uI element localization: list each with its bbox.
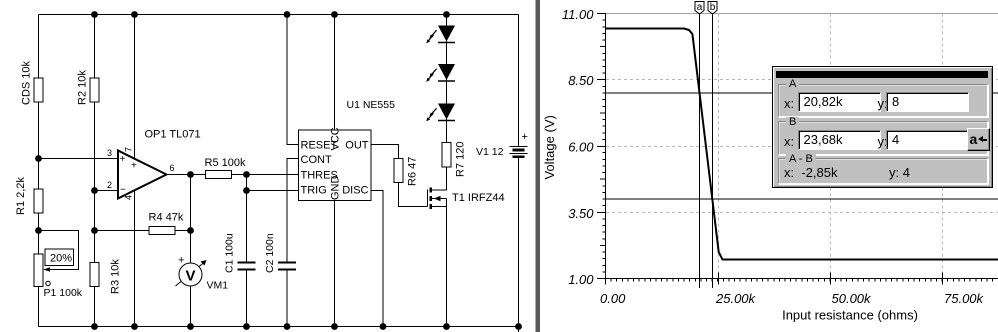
- wire R5 to THRES: [232, 174, 299, 176]
- LED D1: [426, 26, 455, 44]
- svg-text:GND: GND: [330, 176, 342, 201]
- svg-text:CDS 10k: CDS 10k: [21, 60, 33, 105]
- svg-text:2: 2: [107, 180, 112, 190]
- wire DISC drop: [371, 191, 383, 327]
- svg-text:T1 IRFZ44: T1 IRFZ44: [452, 192, 505, 204]
- resistor R1: [34, 189, 43, 213]
- resistor CDS: [34, 78, 43, 102]
- voltmeter VM1 needle: [176, 263, 205, 287]
- svg-text:C2 100n: C2 100n: [264, 233, 276, 273]
- wire R2 column segments: [94, 15, 96, 79]
- wire C2 down: [286, 270, 288, 327]
- battery V1: [510, 147, 528, 157]
- x axis: [606, 278, 998, 280]
- svg-text:V1 12: V1 12: [476, 146, 504, 158]
- svg-text:R4 47k: R4 47k: [149, 212, 184, 224]
- svg-text:R2 10k: R2 10k: [77, 70, 89, 105]
- svg-text:+: +: [178, 255, 184, 267]
- group A: [778, 84, 988, 117]
- transistor T1 body arrow: [434, 196, 441, 202]
- group B: [778, 121, 988, 155]
- svg-text:+: +: [131, 161, 137, 172]
- resistor R7: [442, 143, 451, 168]
- svg-text:6: 6: [170, 163, 175, 173]
- svg-text:75.00k: 75.00k: [944, 291, 985, 306]
- svg-text:V: V: [185, 268, 195, 285]
- wire LED column: [446, 15, 448, 143]
- cursor line a: [699, 11, 701, 289]
- svg-text:Voltage (V): Voltage (V): [542, 115, 557, 179]
- svg-text:CONT: CONT: [301, 154, 332, 166]
- svg-text:4: 4: [124, 195, 134, 200]
- curve voltage vs resistance: [606, 29, 998, 260]
- cursor A horizontal line y=8: [606, 92, 998, 94]
- chart top frame line: [606, 13, 998, 15]
- IC U1 NE555 box: [299, 130, 372, 201]
- wire source down: [446, 207, 448, 327]
- svg-text:+: +: [120, 154, 126, 165]
- wire R4 left: [95, 230, 150, 232]
- cursor handle a: [695, 2, 704, 15]
- gridline horizontal 8.50: [606, 79, 998, 81]
- svg-text:−: −: [120, 185, 126, 196]
- resistor R5: [206, 171, 232, 179]
- potentiometer P1 wiper arrow: [44, 267, 51, 272]
- field B y: [886, 130, 969, 150]
- resistor R3: [90, 263, 99, 287]
- op-amp OP1 triangle: [118, 151, 167, 199]
- gridline vertical 75k: [942, 14, 944, 279]
- wire V1 column: [518, 15, 520, 147]
- panel title bar: [776, 71, 988, 78]
- LED D2: [426, 64, 455, 82]
- wire left column segments: [38, 15, 40, 79]
- svg-text:VCC: VCC: [330, 127, 342, 150]
- wire P1 wiper leader: [39, 231, 79, 270]
- svg-text:VM1: VM1: [207, 280, 229, 292]
- svg-text:OP1 TL071: OP1 TL071: [145, 129, 201, 141]
- potentiometer P1 body: [34, 254, 43, 287]
- svg-text:R6 47: R6 47: [407, 157, 419, 186]
- wire op-amp V- supply: [134, 191, 136, 327]
- wire op-amp pin3: [39, 158, 119, 160]
- svg-text:3: 3: [107, 148, 112, 158]
- svg-text:U1 NE555: U1 NE555: [347, 99, 396, 111]
- svg-text:DISC: DISC: [342, 185, 368, 197]
- cursor measurement panel: [772, 66, 993, 188]
- wire bottom rail: [39, 326, 519, 328]
- y axis ticks: [597, 14, 606, 279]
- wire C1 column: [246, 175, 248, 263]
- wire output node to R5: [167, 174, 206, 176]
- svg-text:6.00: 6.00: [568, 140, 594, 155]
- voltmeter VM1 needle arrowhead: [201, 260, 207, 266]
- resistor R6: [394, 159, 403, 183]
- svg-text:Input resistance (ohms): Input resistance (ohms): [782, 308, 918, 323]
- panel separator: [536, 0, 541, 332]
- svg-text:R1 2,2k: R1 2,2k: [15, 177, 27, 215]
- wire R4 right: [175, 230, 191, 232]
- wire VCC riser: [334, 15, 336, 131]
- svg-text:a: a: [697, 2, 703, 13]
- transistor T1 MOSFET: [428, 188, 447, 210]
- svg-text:+: +: [522, 131, 528, 143]
- svg-text:7: 7: [124, 147, 134, 152]
- svg-text:0.00: 0.00: [600, 291, 626, 306]
- svg-text:R5 100k: R5 100k: [205, 157, 246, 169]
- svg-text:50.00k: 50.00k: [832, 291, 873, 306]
- wire R6 to gate: [399, 183, 428, 207]
- gridline horizontal 6.00: [606, 146, 998, 148]
- svg-text:1.00: 1.00: [568, 272, 594, 287]
- svg-text:b: b: [710, 2, 716, 13]
- capacitor C1: [238, 263, 256, 270]
- potentiometer P1 marker circle: [46, 281, 50, 285]
- voltmeter VM1 circle: [179, 263, 202, 286]
- svg-text:OUT: OUT: [345, 140, 369, 152]
- field A x: [798, 92, 882, 112]
- resistor R4: [149, 227, 175, 235]
- svg-text:R3 10k: R3 10k: [110, 259, 122, 294]
- svg-text:25.00k: 25.00k: [715, 291, 757, 306]
- x axis ticks: [606, 273, 993, 285]
- y axis: [605, 13, 607, 279]
- cursor line b: [712, 11, 714, 289]
- svg-text:C1 100u: C1 100u: [224, 233, 236, 273]
- LED D3: [426, 104, 455, 122]
- resistor R2: [90, 78, 99, 102]
- svg-text:3.50: 3.50: [568, 206, 594, 221]
- wire top rail: [39, 14, 519, 16]
- field A y: [886, 92, 969, 112]
- wire CONT to C2: [287, 159, 299, 263]
- wire GND drop: [334, 201, 336, 327]
- cursor B horizontal line y=4: [606, 198, 998, 200]
- svg-text:11.00: 11.00: [562, 7, 594, 22]
- wire op-amp pin2: [95, 190, 119, 192]
- wire RESET riser: [287, 15, 299, 145]
- svg-text:R7 120: R7 120: [455, 142, 467, 177]
- button a-arrow: [967, 128, 990, 151]
- wire R7 to drain: [446, 167, 448, 190]
- group A-B: [778, 158, 988, 184]
- svg-text:8.50: 8.50: [568, 73, 594, 88]
- capacitor C2: [278, 263, 296, 270]
- wire TRIG: [247, 190, 299, 192]
- cursor handle b: [708, 2, 717, 15]
- svg-text:TRIG: TRIG: [301, 185, 327, 197]
- gridline vertical 25k: [718, 14, 720, 279]
- wire output node down to R4 and VM1: [190, 175, 192, 264]
- gridline vertical 50k: [830, 14, 832, 279]
- gridline horizontal 3.50: [606, 212, 998, 214]
- potentiometer P1 20% label box: [45, 249, 74, 266]
- wire op-amp V+ supply: [134, 15, 136, 159]
- field B x: [798, 130, 882, 150]
- svg-text:20%: 20%: [50, 253, 72, 265]
- svg-text:P1 100k: P1 100k: [44, 287, 83, 299]
- wire OUT to R6: [371, 145, 399, 159]
